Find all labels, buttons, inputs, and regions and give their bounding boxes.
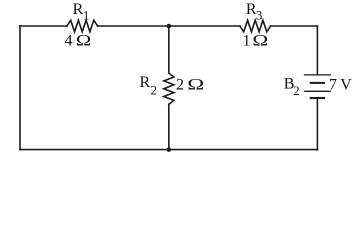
svg-text:Ω: Ω xyxy=(252,33,268,50)
battery B2 plate long top xyxy=(305,74,331,76)
wire R3 to top-right corner xyxy=(271,25,318,27)
svg-text:R: R xyxy=(139,74,150,91)
battery B2 plate short xyxy=(311,82,324,84)
wire R2 to node B xyxy=(168,104,170,149)
wire node A down to R2 xyxy=(168,26,170,73)
wire node A to R3 xyxy=(169,25,240,27)
svg-text:Ω: Ω xyxy=(76,33,91,50)
wire bottom xyxy=(20,149,317,151)
wire battery to bottom-right corner xyxy=(316,98,318,150)
resistor R2 xyxy=(164,73,174,104)
svg-text:2: 2 xyxy=(293,83,300,98)
node B junction dot xyxy=(167,147,172,152)
svg-text:3: 3 xyxy=(256,7,263,22)
svg-text:V: V xyxy=(340,76,352,93)
battery B2 plate long xyxy=(305,90,331,92)
resistor R3 xyxy=(240,20,271,32)
svg-text:2: 2 xyxy=(151,82,158,97)
resistor R1 xyxy=(67,20,98,32)
svg-text:Ω: Ω xyxy=(187,76,204,93)
svg-text:1: 1 xyxy=(83,7,90,22)
battery B2 plate short bottom xyxy=(311,97,324,99)
wire left side xyxy=(19,26,21,150)
wire top-left segment xyxy=(20,25,67,27)
svg-text:1: 1 xyxy=(243,33,251,50)
svg-text:2: 2 xyxy=(176,76,184,93)
wire R1 to node A xyxy=(98,25,169,27)
svg-text:4: 4 xyxy=(64,32,72,49)
node A junction dot xyxy=(167,24,172,29)
svg-text:7: 7 xyxy=(329,77,337,94)
wire right side down to battery xyxy=(316,26,318,75)
